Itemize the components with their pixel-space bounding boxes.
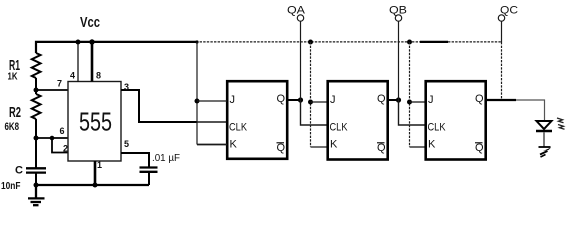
svg-text:6K8: 6K8	[5, 121, 20, 133]
svg-text:C: C	[15, 165, 23, 177]
svg-text:Q: Q	[377, 93, 386, 105]
LED D1	[537, 121, 552, 129]
node FF2 Q junction	[396, 97, 401, 102]
svg-text:K: K	[230, 139, 238, 151]
svg-text:Vcc: Vcc	[80, 15, 100, 31]
node FF3 J/K drop rail junction	[407, 40, 412, 45]
pin 8 wire	[91, 42, 94, 82]
node pin4 rail junction	[76, 40, 81, 45]
wire QB vertical	[398, 21, 400, 100]
LED emission arrows	[557, 118, 564, 123]
wire FF2 Q output	[389, 99, 399, 101]
svg-text:Q: Q	[377, 142, 386, 154]
node FF2 J/K drop rail junction	[308, 40, 313, 45]
resistor R2	[32, 94, 41, 119]
wire QC vertical dashed	[501, 42, 503, 100]
wire FF3 Q to LED (thin)	[516, 99, 545, 101]
wire LED anode	[544, 100, 546, 122]
node FF1 J/K drop rail junction	[195, 40, 198, 43]
node pin7 junction	[34, 88, 39, 93]
svg-text:CLK: CLK	[229, 122, 248, 134]
wire R2 to capacitor C	[35, 119, 37, 168]
wire to pin 7	[36, 89, 68, 91]
ground symbol	[28, 185, 45, 205]
pin 3 wire to FF1 CLK	[121, 90, 197, 122]
wire to pin 6	[36, 137, 68, 139]
svg-text:J: J	[230, 94, 236, 106]
wire FF3 K input	[410, 146, 426, 148]
FF1 J/K vertical drop wire	[196, 42, 198, 145]
pin 4 wire	[77, 42, 79, 82]
wire FF3 Q output	[487, 99, 517, 101]
svg-text:6: 6	[60, 126, 65, 136]
node pin1 ground junction	[93, 183, 98, 188]
node pin8 rail junction	[89, 39, 94, 44]
svg-text:J: J	[428, 94, 434, 106]
svg-text:Q: Q	[277, 142, 286, 154]
wire FF2 K input	[311, 146, 328, 148]
wire Vcc rail (solid thick part)	[36, 42, 196, 53]
timer U1 555	[68, 82, 121, 162]
resistor R1	[32, 53, 41, 78]
wire QA vertical	[300, 21, 302, 100]
svg-text:2: 2	[63, 144, 68, 154]
wire rail thick overdraw segment	[420, 41, 448, 43]
svg-text:K: K	[330, 139, 338, 151]
ground rail wire	[36, 184, 149, 186]
wire FF2 J input	[311, 101, 328, 103]
wire FF1 Q output	[288, 99, 301, 101]
flip-flop U3 box	[328, 81, 388, 159]
svg-text:Q: Q	[277, 93, 286, 105]
svg-text:10nF: 10nF	[1, 180, 21, 192]
svg-text:QA: QA	[287, 5, 306, 17]
flip-flop U2 box	[227, 81, 287, 159]
node pin6/pin2 junction	[34, 136, 39, 141]
wire FF1 K input	[197, 144, 227, 146]
svg-text:.01 µF: .01 µF	[152, 152, 180, 164]
FF3 J/K dashed drop wire	[409, 42, 411, 147]
node pin2 branch junction	[50, 136, 55, 141]
chassis ground at LED	[539, 146, 551, 148]
capacitor C2 .01uF	[140, 166, 158, 168]
wire FF3 J input	[410, 101, 426, 103]
pin 5 wire	[121, 153, 149, 167]
svg-text:J: J	[330, 94, 336, 106]
svg-text:4: 4	[70, 71, 75, 81]
wire C to ground rail	[35, 174, 37, 186]
svg-text:1: 1	[97, 160, 102, 170]
node FF2 J junction	[308, 100, 313, 105]
node FF3 J junction	[407, 100, 412, 105]
node ground junction	[34, 183, 39, 188]
capacitor C	[26, 167, 46, 169]
wire LED cathode	[543, 132, 545, 147]
svg-text:R2: R2	[9, 104, 21, 121]
svg-text:1K: 1K	[8, 71, 18, 83]
wire Vcc rail (dashed part to FF area)	[196, 41, 502, 43]
wire branch to pin 2	[52, 138, 68, 153]
wire QC vertical solid	[501, 21, 503, 42]
svg-text:Q: Q	[475, 142, 484, 154]
node FF1 Q junction	[298, 97, 303, 102]
svg-text:3: 3	[124, 82, 129, 92]
svg-text:K: K	[428, 139, 436, 151]
wire R1 to R2	[35, 78, 37, 94]
wire FF1 Q to FF2 CLK	[301, 100, 328, 125]
svg-text:5: 5	[124, 139, 129, 149]
svg-text:8: 8	[96, 71, 101, 81]
flip-flop U4 box	[426, 81, 486, 159]
wire FF2 Q to FF3 CLK	[399, 100, 426, 125]
svg-text:7: 7	[57, 79, 62, 89]
wire FF1 J input	[197, 100, 227, 102]
svg-text:CLK: CLK	[330, 122, 349, 134]
svg-text:Q: Q	[475, 93, 484, 105]
svg-text:555: 555	[79, 107, 112, 137]
FF2 J/K dashed drop wire	[310, 42, 312, 147]
svg-text:CLK: CLK	[428, 122, 447, 134]
pin 1 wire	[94, 161, 97, 185]
node FF1 J junction	[195, 99, 200, 104]
